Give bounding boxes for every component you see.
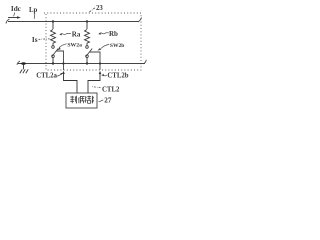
break symbol right end of top rail (138, 18, 142, 22)
wire control tap A (56, 51, 64, 70)
ground (20, 64, 28, 74)
svg-text:Is: Is (32, 36, 38, 44)
char 御 (79, 96, 87, 103)
break symbol left end of bottom rail (17, 61, 20, 65)
label SW2b (97, 43, 124, 50)
resistor Ra (51, 30, 56, 46)
svg-text:Ra: Ra (72, 31, 81, 39)
label CTL2 (91, 86, 120, 93)
node junction top rail / branch A (52, 20, 54, 22)
switch SW2a (52, 46, 59, 58)
svg-text:Lp: Lp (29, 7, 38, 14)
wire branch B lower lead (86, 58, 88, 64)
label CTL2b (101, 73, 129, 80)
resistor Rb (85, 30, 90, 46)
svg-text:23: 23 (96, 5, 103, 12)
wire branch B upper lead (86, 22, 88, 30)
break symbol left end of top rail (6, 19, 10, 24)
svg-text:Rb: Rb (109, 30, 118, 38)
wire control line CTL2b with up arrow (88, 71, 101, 93)
svg-text:CTL2: CTL2 (102, 86, 120, 93)
current arrow Idc (8, 16, 21, 19)
junction dot ground (21, 62, 26, 65)
char 部 (87, 96, 93, 104)
label SW2a (57, 43, 82, 51)
wire bottom rail (18, 63, 145, 65)
label CTL2a (36, 72, 63, 79)
svg-text:Idc: Idc (11, 5, 22, 13)
node junction top rail / branch B (86, 20, 88, 22)
svg-text:SW2b: SW2b (110, 43, 124, 49)
svg-text:CTL2a: CTL2a (36, 72, 57, 79)
label 23 (89, 5, 104, 13)
wire control tap B (90, 52, 101, 70)
junction dots on bottom rail (52, 62, 54, 64)
wire control line CTL2a with up arrow (62, 71, 77, 93)
control unit box 27 (66, 93, 97, 108)
label Is (32, 36, 50, 44)
char 制 (70, 96, 76, 104)
label Idc (11, 5, 22, 16)
wire branch A lower lead (52, 58, 54, 64)
label Rb (98, 30, 118, 38)
label Lp (29, 7, 38, 19)
wire top rail (8, 21, 139, 23)
svg-text:CTL2b: CTL2b (107, 73, 128, 80)
svg-text:SW2a: SW2a (67, 43, 82, 49)
wire branch A upper lead (52, 22, 54, 30)
dashed enclosure box 23 (44, 13, 141, 70)
svg-text:27: 27 (104, 97, 112, 105)
break symbol right end of bottom rail (144, 60, 147, 64)
text 制御部 (drawn strokes) (70, 96, 93, 104)
label Ra (59, 31, 81, 39)
label 27 (99, 97, 112, 105)
switch SW2b (86, 46, 93, 58)
